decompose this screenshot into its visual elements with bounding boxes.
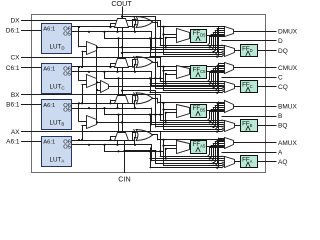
svg-text:O5: O5 [63, 71, 71, 77]
svg-text:D: D [278, 38, 283, 45]
svg-text:A: A [278, 149, 283, 156]
svg-text:BX: BX [11, 92, 20, 99]
svg-text:CIN: CIN [118, 175, 130, 184]
svg-text:O5: O5 [63, 31, 71, 37]
svg-text:CX: CX [10, 55, 20, 62]
svg-text:LUTA: LUTA [50, 156, 65, 163]
svg-text:A6:1: A6:1 [43, 140, 55, 146]
svg-text:C: C [278, 74, 283, 81]
svg-text:AX: AX [11, 129, 20, 136]
svg-text:D6:1: D6:1 [6, 28, 20, 35]
svg-text:CQ: CQ [278, 84, 288, 91]
svg-text:AQ: AQ [278, 159, 287, 166]
svg-text:LUTB: LUTB [50, 120, 65, 127]
svg-text:C6:1: C6:1 [6, 65, 20, 72]
svg-text:DX: DX [10, 18, 20, 25]
svg-text:A6:1: A6:1 [43, 27, 55, 33]
svg-text:O5: O5 [63, 108, 71, 114]
svg-text:CMUX: CMUX [278, 65, 298, 72]
svg-text:LUTD: LUTD [50, 43, 65, 50]
svg-text:B6:1: B6:1 [6, 102, 20, 109]
svg-text:BQ: BQ [278, 123, 287, 130]
svg-text:DMUX: DMUX [278, 29, 298, 36]
svg-text:A6:1: A6:1 [43, 103, 55, 109]
svg-text:COUT: COUT [111, 0, 132, 8]
svg-text:AMUX: AMUX [278, 140, 297, 147]
svg-text:BMUX: BMUX [278, 104, 297, 111]
svg-text:LUTC: LUTC [50, 83, 65, 90]
svg-text:A6:1: A6:1 [6, 138, 20, 145]
svg-text:B: B [278, 113, 282, 120]
svg-text:O5: O5 [63, 144, 71, 150]
svg-text:A6:1: A6:1 [43, 67, 55, 73]
svg-text:DQ: DQ [278, 48, 288, 55]
